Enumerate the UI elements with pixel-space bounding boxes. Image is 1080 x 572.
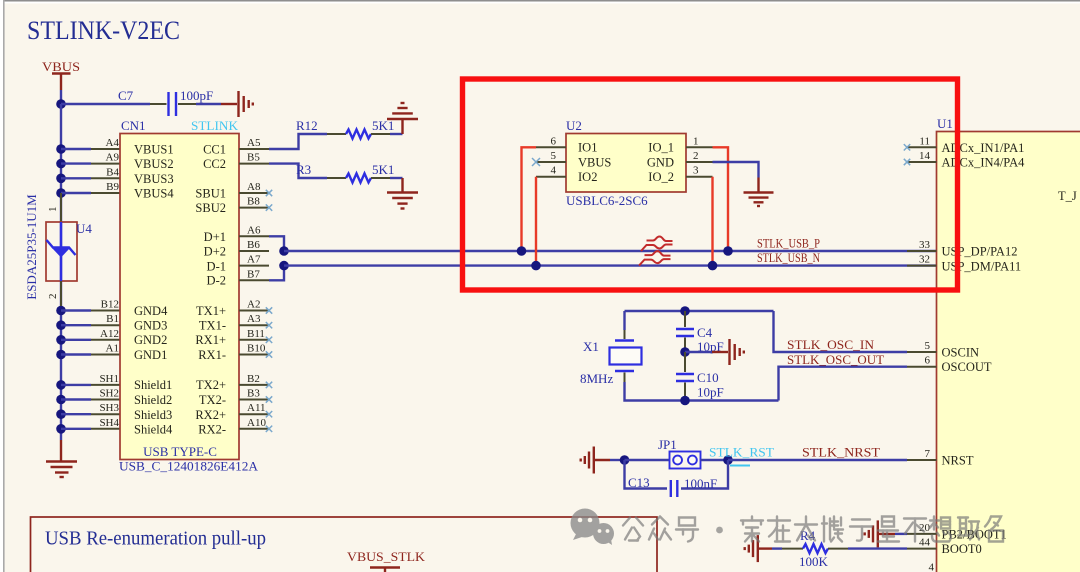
svg-text:CC2: CC2	[203, 157, 226, 171]
CN1 right pin stubs	[239, 149, 269, 429]
ground (rotated bars) at crystal mid node	[712, 339, 744, 365]
svg-text:A1: A1	[106, 343, 119, 355]
svg-text:TX1+: TX1+	[196, 304, 226, 318]
svg-text:5: 5	[551, 150, 557, 162]
svg-text:STLINK-V2EC: STLINK-V2EC	[27, 16, 180, 45]
CN1 right pin names	[195, 142, 226, 436]
svg-text:Shield1: Shield1	[134, 378, 172, 392]
svg-text:VBUS3: VBUS3	[134, 172, 174, 186]
junction crystal top node	[680, 306, 690, 316]
svg-text:8MHz: 8MHz	[580, 371, 613, 386]
CN1 right pin designators	[247, 137, 266, 429]
junction pin4/N	[531, 261, 541, 271]
wire VBUS to C7	[61, 103, 150, 105]
svg-text:B1: B1	[106, 313, 119, 325]
differential pair marker on STLK_USB_N	[639, 251, 671, 266]
svg-text:A12: A12	[100, 328, 119, 340]
junction pin6/P	[517, 246, 527, 256]
svg-text:USBLC6-2SC6: USBLC6-2SC6	[566, 193, 648, 208]
wire D+1 jog to D+2	[269, 236, 284, 251]
wire D-2 jog to D-1	[269, 266, 284, 281]
svg-text:Shield2: Shield2	[134, 393, 172, 407]
junction D- node	[279, 261, 289, 271]
svg-text:10pF: 10pF	[697, 385, 724, 400]
no-ERC markers CN1 right	[266, 190, 272, 432]
svg-text:7: 7	[925, 448, 931, 460]
ground (rotated bars) left of JP1	[581, 447, 610, 474]
ESD protection U2 USBLC6-2SC6	[566, 134, 686, 193]
svg-text:STLK_OSC_IN: STLK_OSC_IN	[787, 337, 875, 352]
wire CC1 to R12	[269, 134, 327, 149]
wire crystal top rail	[625, 311, 774, 330]
svg-text:STLK_RST: STLK_RST	[709, 445, 774, 460]
svg-text:6: 6	[551, 135, 557, 147]
svg-text:6: 6	[925, 355, 931, 367]
no-ERC marker U2 pin5	[532, 158, 540, 166]
svg-text:STLINK: STLINK	[191, 118, 239, 133]
U2 pin stubs	[536, 147, 713, 176]
svg-text:RX2+: RX2+	[195, 408, 226, 422]
capacitor C13 100nF loop	[625, 460, 729, 497]
svg-text:D-1: D-1	[207, 259, 226, 273]
CN1 left pin names	[134, 142, 174, 436]
wire top rail to OSC_IN	[774, 311, 908, 352]
ground (rotated bars) right of C7	[221, 91, 253, 117]
svg-text:B11: B11	[247, 328, 265, 340]
svg-text:1: 1	[47, 207, 59, 213]
svg-text:IO2: IO2	[578, 170, 597, 184]
sheet border top	[0, 0, 1080, 3]
svg-text:A5: A5	[247, 137, 261, 149]
wire ground to R4	[772, 547, 782, 549]
svg-text:B5: B5	[247, 152, 260, 164]
wire U2 pin4 to N bus (red)	[535, 177, 537, 266]
wire bottom rail to OSC_OUT	[779, 367, 908, 401]
wire U2 pin1 to P bus (red)	[713, 147, 729, 251]
svg-text:CN1: CN1	[121, 118, 146, 133]
svg-text:USP_DP/PA12: USP_DP/PA12	[942, 244, 1018, 258]
svg-text:VBUS_STLK: VBUS_STLK	[347, 549, 426, 564]
svg-text:3: 3	[693, 165, 699, 177]
svg-text:B6: B6	[247, 239, 260, 251]
svg-text:B2: B2	[247, 373, 260, 385]
svg-text:U2: U2	[566, 118, 582, 133]
svg-text:A11: A11	[247, 402, 266, 414]
ground below U2 pin2	[744, 178, 774, 207]
wire U2 pin3 to N bus (red)	[711, 177, 713, 266]
svg-text:14: 14	[919, 150, 931, 162]
svg-text:ADCx_IN4/PA4: ADCx_IN4/PA4	[942, 155, 1026, 169]
connector CN1 USB TYPE-C body	[120, 134, 239, 460]
svg-text:GND1: GND1	[134, 348, 167, 362]
junction JP1 left node	[620, 455, 630, 465]
wire pin20	[895, 533, 907, 535]
svg-text:2: 2	[693, 150, 699, 162]
junction D+ node	[279, 246, 289, 256]
svg-text:100nF: 100nF	[684, 476, 717, 491]
differential pair marker on STLK_USB_P	[641, 237, 673, 252]
svg-text:ADCx_IN1/PA1: ADCx_IN1/PA1	[942, 141, 1025, 155]
svg-text:4: 4	[551, 165, 557, 177]
svg-text:USB_C_12401826E412A: USB_C_12401826E412A	[119, 459, 259, 474]
svg-text:SBU2: SBU2	[195, 201, 226, 215]
svg-text:NRST: NRST	[942, 453, 974, 467]
svg-text:B3: B3	[247, 388, 260, 400]
svg-text:4: 4	[929, 562, 935, 572]
svg-text:U4: U4	[76, 221, 92, 236]
wire C7 to ground	[196, 103, 221, 105]
svg-text:USB Re-enumeration pull-up: USB Re-enumeration pull-up	[45, 528, 266, 550]
svg-text:GND2: GND2	[134, 333, 167, 347]
wire ground to JP1 node	[610, 459, 625, 461]
svg-text:OSCIN: OSCIN	[942, 345, 980, 359]
U2 pin numbers 6 5 4 1 2 3	[551, 135, 700, 176]
svg-text:U1: U1	[937, 116, 953, 131]
svg-text:IO_2: IO_2	[648, 170, 674, 184]
svg-text:D+2: D+2	[204, 244, 226, 258]
svg-text:IO_1: IO_1	[648, 141, 674, 155]
svg-text:100pF: 100pF	[180, 88, 213, 103]
svg-text:OSCOUT: OSCOUT	[942, 360, 992, 374]
svg-text:B4: B4	[106, 166, 119, 178]
svg-text:SH3: SH3	[99, 402, 119, 414]
svg-text:SBU1: SBU1	[195, 186, 226, 200]
wire CC2 to R3	[269, 164, 327, 178]
junction C4/C10 mid node	[680, 347, 690, 357]
svg-text:44: 44	[919, 537, 931, 549]
svg-text:B7: B7	[247, 268, 260, 280]
svg-text:B12: B12	[101, 299, 119, 311]
svg-text:TX2+: TX2+	[196, 378, 226, 392]
svg-text:VBUS: VBUS	[578, 155, 611, 169]
svg-text:A7: A7	[247, 254, 261, 266]
svg-text:32: 32	[919, 254, 930, 266]
watermark text 公众号·实在太懒于是不想取名	[623, 517, 1003, 542]
svg-text:BOOT0: BOOT0	[942, 542, 982, 556]
svg-text:C10: C10	[697, 370, 719, 385]
svg-text:33: 33	[919, 239, 931, 251]
svg-text:TX2-: TX2-	[199, 393, 226, 407]
svg-text:RX1-: RX1-	[198, 348, 226, 362]
svg-text:C13: C13	[628, 475, 650, 490]
svg-text:USP_DM/PA11: USP_DM/PA11	[942, 259, 1022, 273]
CN1 left pin stubs	[91, 149, 120, 429]
junction JP1 right node	[723, 455, 733, 465]
junction dots CN1 left bus	[56, 144, 66, 433]
wire JP1 to right node	[701, 459, 729, 461]
svg-text:STLK_OSC_OUT: STLK_OSC_OUT	[787, 352, 884, 367]
wire R3 to ground	[390, 177, 403, 179]
svg-text:CC1: CC1	[203, 142, 226, 156]
svg-text:D+1: D+1	[204, 230, 226, 244]
svg-text:IO1: IO1	[578, 141, 597, 155]
wire mid node to ground	[685, 351, 712, 353]
svg-text:R3: R3	[296, 162, 311, 177]
svg-text:TX1-: TX1-	[199, 319, 226, 333]
wire CN1 left vertical bus	[60, 104, 62, 440]
wire U2 pin6 to P bus (red)	[522, 147, 537, 251]
wire R12 to ground	[390, 133, 403, 135]
svg-text:Shield3: Shield3	[134, 408, 172, 422]
capacitor C10 10pF	[676, 352, 724, 401]
svg-text:X1: X1	[583, 339, 599, 354]
ground (rotated bars) at U1 pin20	[865, 520, 895, 547]
svg-text:STLK_NRST: STLK_NRST	[802, 445, 880, 460]
ground below R3	[387, 178, 418, 209]
svg-text:A3: A3	[247, 313, 261, 325]
svg-text:ESDA25P35-1U1M: ESDA25P35-1U1M	[24, 194, 39, 300]
svg-text:A8: A8	[247, 181, 261, 193]
svg-text:B8: B8	[247, 196, 260, 208]
capacitor C4 10pF	[676, 311, 724, 354]
svg-text:USB TYPE-C: USB TYPE-C	[143, 444, 217, 459]
svg-text:STLK_USB_N: STLK_USB_N	[757, 250, 820, 265]
svg-text:A4: A4	[106, 137, 120, 149]
svg-text:Shield4: Shield4	[134, 423, 173, 437]
resistor R3 5K1	[296, 162, 394, 183]
svg-text:A10: A10	[247, 417, 266, 429]
svg-text:T_J: T_J	[1058, 189, 1077, 203]
svg-text:SH2: SH2	[99, 388, 119, 400]
svg-text:GND3: GND3	[134, 319, 167, 333]
junction crystal bottom node	[680, 396, 690, 406]
svg-text:VBUS1: VBUS1	[134, 142, 174, 156]
svg-text:GND4: GND4	[134, 304, 168, 318]
wire net STLK_USB_N bus	[284, 264, 937, 266]
red highlight rectangle annotation	[463, 79, 958, 290]
svg-text:B10: B10	[247, 343, 266, 355]
svg-text:RX2-: RX2-	[198, 423, 226, 437]
no-ERC markers U1 pins 11 14	[904, 144, 910, 165]
MCU U1 body	[937, 132, 1080, 572]
wire net STLK_USB_P bus	[284, 250, 937, 252]
svg-text:1: 1	[693, 135, 699, 147]
resistor R4 100K	[782, 528, 848, 569]
wire NRST net to U1	[728, 459, 907, 461]
svg-text:A9: A9	[106, 152, 120, 164]
svg-text:R12: R12	[296, 118, 318, 133]
svg-text:C7: C7	[118, 88, 134, 103]
svg-text:STLK_USB_P: STLK_USB_P	[757, 236, 820, 251]
junction pin3/N	[708, 261, 718, 271]
section box USB Re-enumeration pull-up	[31, 517, 658, 572]
svg-text:VBUS: VBUS	[42, 59, 80, 74]
wire R4 to U1 pin44	[848, 547, 907, 549]
svg-text:GND: GND	[647, 155, 674, 169]
crystal X1 8MHz	[580, 330, 642, 386]
svg-text:2: 2	[47, 294, 59, 300]
svg-text:JP1: JP1	[658, 437, 677, 452]
svg-text:A2: A2	[247, 299, 260, 311]
wires CN1 left bus to pins	[61, 149, 91, 429]
svg-text:B9: B9	[106, 181, 119, 193]
svg-text:D-2: D-2	[207, 274, 226, 288]
svg-text:11: 11	[919, 135, 930, 147]
watermark wechat icon	[571, 509, 615, 546]
svg-text:A6: A6	[247, 224, 261, 236]
U1 pin numbers	[919, 135, 931, 548]
capacitor C7 100pF	[118, 88, 213, 116]
power port VBUS_STLK	[347, 549, 426, 572]
resistor R12 5K1	[296, 118, 394, 139]
svg-text:RX1+: RX1+	[195, 333, 226, 347]
svg-text:VBUS4: VBUS4	[134, 186, 174, 200]
svg-text:5K1: 5K1	[372, 118, 394, 133]
ground (rotated bars) left of R4	[745, 535, 772, 562]
svg-text:5: 5	[925, 340, 931, 352]
CN1 left pin designators	[99, 137, 119, 429]
net label STLK_RST (cyan)	[709, 445, 774, 466]
svg-text:100K: 100K	[799, 554, 829, 569]
svg-text:SH4: SH4	[99, 417, 119, 429]
ground above R12 (inverted)	[387, 103, 418, 134]
wire VBUS stem	[60, 90, 62, 104]
ground below CN1 left bus	[46, 440, 77, 477]
svg-text:VBUS2: VBUS2	[134, 157, 174, 171]
junction VBUS node	[56, 99, 66, 109]
junction pin1/P	[723, 246, 733, 256]
power port VBUS	[42, 59, 80, 90]
TVS diode U4 ESDA25P35-1U1M	[46, 193, 92, 306]
wire to JP1	[625, 459, 670, 461]
wire U2 pin2 GND	[713, 162, 759, 178]
jumper JP1	[658, 437, 701, 469]
svg-text:5K1: 5K1	[372, 162, 394, 177]
sheet border left	[0, 0, 5, 572]
U1 pin stubs	[907, 147, 937, 548]
U1 pin names	[942, 141, 1026, 556]
svg-text:SH1: SH1	[99, 373, 119, 385]
wire crystal bottom rail	[625, 382, 779, 401]
U2 pin names	[578, 141, 674, 184]
svg-text:C4: C4	[697, 325, 713, 340]
